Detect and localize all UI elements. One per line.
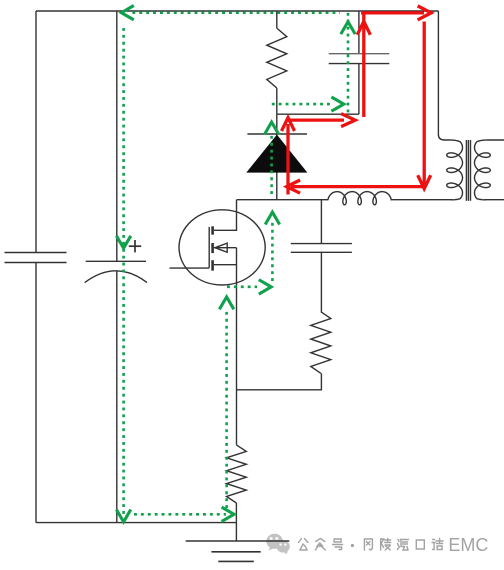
wire C4 to R2 xyxy=(320,252,322,311)
wire bottom bus xyxy=(36,522,236,524)
wire secondary bottom lead xyxy=(485,199,504,201)
wire green bottom horizontal xyxy=(134,513,226,516)
green arrow left top xyxy=(121,6,133,20)
Q1 body-diode line xyxy=(214,247,237,249)
green arrow up diode xyxy=(264,122,278,134)
green arrow right clamp xyxy=(331,97,343,111)
wire green diode vertical xyxy=(270,134,273,194)
wire inductor to transformer xyxy=(391,199,452,201)
wire clamp node horizontal xyxy=(277,113,359,115)
wire red left vertical xyxy=(286,124,289,195)
wire left vertical upper xyxy=(35,11,37,253)
Q1 drain contact bar xyxy=(211,226,214,234)
wire red right vertical xyxy=(423,22,426,185)
wire red arrow down xyxy=(418,175,431,189)
snubber branch top lead xyxy=(320,200,322,244)
green arrow down bottom left xyxy=(116,510,130,522)
transformer T1 secondary winding xyxy=(475,140,491,200)
wire resistor R1 top lead xyxy=(276,11,278,28)
diode D1 body (filled triangle) xyxy=(246,135,307,173)
green arrow down at C2 xyxy=(116,236,130,248)
Q1 source lead xyxy=(214,264,237,266)
wire green mosfet horizontal xyxy=(227,285,257,288)
wire resistor R1 bottom lead xyxy=(276,88,278,114)
transistor Q1 MOSFET body circle xyxy=(179,210,265,285)
capacitor C3 plates xyxy=(329,53,390,55)
wire red clamp top horizontal xyxy=(361,11,424,14)
Q1 source contact bar xyxy=(211,260,214,270)
diode D1 TVS cathode bar xyxy=(247,133,307,135)
green arrow right at Q1 xyxy=(259,280,271,294)
wire right vertical to transformer top xyxy=(438,11,450,140)
Q1 drain lead xyxy=(214,200,237,231)
wire red arrow up left xyxy=(282,118,295,131)
wire source vertical down xyxy=(236,248,238,445)
wire R2 bottom lead xyxy=(237,373,322,390)
wire red bottom horizontal xyxy=(291,185,424,188)
capacitor C4 snubber plates xyxy=(291,243,352,245)
wire green drain vertical xyxy=(271,222,274,281)
capacitor C3 clamp top lead xyxy=(358,11,360,54)
inductor L1 (transformer primary leakage) xyxy=(328,192,392,205)
wire R3 bottom lead xyxy=(235,503,237,541)
wire red arrow up cap xyxy=(357,21,370,35)
ground xyxy=(186,540,290,542)
resistor R1 xyxy=(267,28,287,88)
wire top bus xyxy=(36,10,438,12)
wire red mid horizontal xyxy=(288,118,344,121)
wire left vertical lower xyxy=(35,263,37,523)
capacitor C3 bottom lead xyxy=(358,64,360,115)
capacitor C2 curved plate xyxy=(85,271,147,283)
wire drain node horizontal xyxy=(237,199,329,201)
wire green top horizontal xyxy=(132,11,340,14)
green arrow up below Q1 xyxy=(219,297,233,309)
Q1 body-diode arrow (open triangle) xyxy=(215,243,227,252)
Q1 gate electrode line xyxy=(208,227,210,268)
wire green cap vertical xyxy=(347,13,350,117)
capacitor C2 plus sign xyxy=(129,245,141,247)
green arrow up cap xyxy=(341,22,355,34)
watermark text xyxy=(299,539,444,551)
wire red arrow right top xyxy=(418,6,432,20)
wire red arrow left xyxy=(287,180,301,193)
capacitor C2 bulk electrolytic top lead xyxy=(116,11,118,261)
wire secondary top lead xyxy=(486,139,504,141)
transformer T1 core xyxy=(465,140,467,201)
capacitor C2 bottom lead xyxy=(116,271,118,523)
wire red cap vertical xyxy=(362,13,365,117)
wire green left vertical xyxy=(122,28,125,517)
watermark wechat icon xyxy=(266,534,289,555)
green arrow right bottom xyxy=(222,507,234,521)
wire green sense vertical xyxy=(225,309,228,508)
capacitor C2 flat plate xyxy=(86,260,146,262)
wire red arrow right mid xyxy=(341,114,355,127)
wire gate stub xyxy=(170,267,210,269)
resistor R3 sense xyxy=(227,445,247,503)
capacitor C1 plates (input cap) xyxy=(5,252,67,254)
wire green clamp horizontal xyxy=(272,103,330,106)
resistor R2 snubber xyxy=(311,312,331,374)
svg-text:EMC: EMC xyxy=(448,535,488,555)
wire diode branch vertical xyxy=(276,114,278,200)
transformer T1 primary winding xyxy=(447,140,463,200)
Q1 body contact bar xyxy=(211,243,214,253)
green arrow up drain xyxy=(265,212,279,224)
